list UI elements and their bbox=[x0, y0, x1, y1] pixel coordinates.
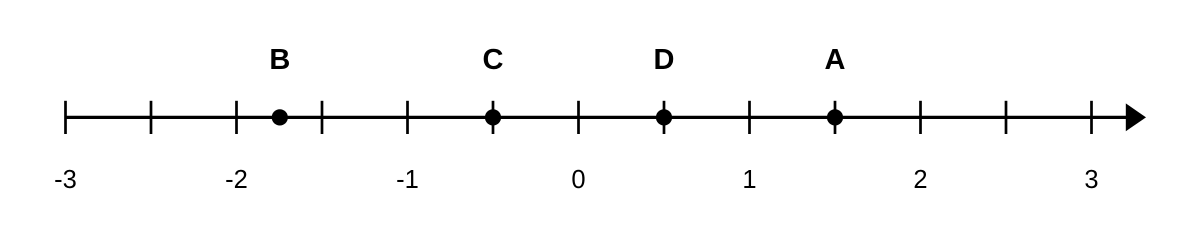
point B (-1.75) bbox=[272, 109, 288, 125]
svg-text:1: 1 bbox=[742, 166, 756, 194]
tick -1.5 bbox=[321, 101, 324, 134]
tick 2.5 bbox=[1005, 101, 1008, 134]
tick -1 bbox=[406, 101, 409, 134]
svg-text:-2: -2 bbox=[225, 166, 248, 194]
svg-text:B: B bbox=[269, 44, 290, 76]
tick 3 bbox=[1090, 101, 1093, 134]
tick -3 bbox=[64, 101, 67, 134]
point A (1.5) bbox=[827, 109, 843, 125]
tick 1.5 bbox=[834, 101, 837, 134]
tick 0 bbox=[577, 101, 580, 134]
svg-text:A: A bbox=[825, 44, 846, 76]
svg-text:0: 0 bbox=[571, 166, 585, 194]
arrowhead bbox=[1126, 103, 1146, 131]
point C (-0.5) bbox=[485, 109, 501, 125]
point D (0.5) bbox=[656, 109, 672, 125]
tick -2.5 bbox=[150, 101, 153, 134]
svg-text:2: 2 bbox=[913, 166, 927, 194]
number line axis bbox=[65, 116, 1128, 119]
svg-text:D: D bbox=[654, 44, 675, 76]
tick 2 bbox=[919, 101, 922, 134]
tick 0.5 bbox=[663, 101, 666, 134]
svg-text:3: 3 bbox=[1084, 166, 1098, 194]
tick -2 bbox=[235, 101, 238, 134]
svg-text:C: C bbox=[483, 44, 504, 76]
svg-text:-1: -1 bbox=[396, 166, 419, 194]
svg-text:-3: -3 bbox=[54, 166, 77, 194]
tick -0.5 bbox=[492, 101, 495, 134]
tick 1 bbox=[748, 101, 751, 134]
